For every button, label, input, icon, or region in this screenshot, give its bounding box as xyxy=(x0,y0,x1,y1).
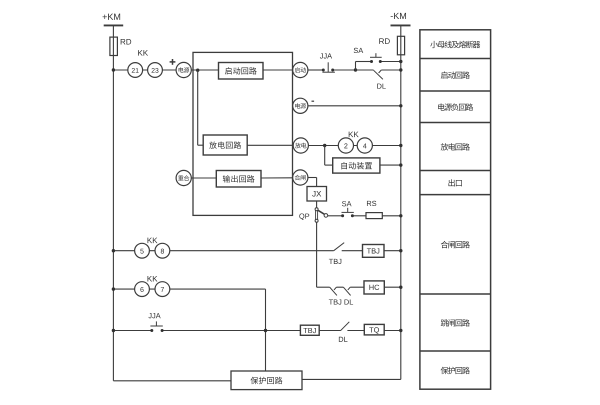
block 自动装置 xyxy=(333,158,380,173)
node left bus KK5 xyxy=(112,249,115,252)
block 输出回路 xyxy=(216,171,261,188)
contact DL top blade xyxy=(374,70,383,79)
wire TBJ2 to DL xyxy=(319,330,340,332)
label SA top xyxy=(354,48,364,53)
legend column frame xyxy=(420,30,491,389)
wire +bus to power terminal xyxy=(113,69,176,71)
wire left bus to 保护回路 xyxy=(113,380,231,382)
wire down to 自动装置 xyxy=(325,146,333,166)
label TBJ contact xyxy=(329,259,341,264)
label JJA top xyxy=(320,53,332,58)
switch KK label (6/7) xyxy=(148,276,158,282)
coil HC xyxy=(364,281,384,294)
device box (reclosing relay) xyxy=(193,52,293,215)
bus -KM label xyxy=(391,13,406,19)
legend row 合闸回路 xyxy=(420,195,491,249)
wire DL branch left xyxy=(356,69,374,71)
wire inner power down xyxy=(197,70,199,145)
legend row 放电回路 xyxy=(420,123,491,151)
wire split up xyxy=(355,62,357,71)
wire TBJ contact to coil xyxy=(342,250,363,252)
wire DL branch right xyxy=(381,69,401,71)
link QP body xyxy=(316,210,318,219)
label DL bottom xyxy=(339,337,348,342)
node 电源R bus xyxy=(399,104,402,107)
wire between contacts xyxy=(336,286,343,288)
switch KK contact 6 xyxy=(135,282,150,297)
contact SA bottom bridge xyxy=(342,208,354,213)
terminal 合闸 right xyxy=(293,170,308,185)
link QP open end xyxy=(324,214,328,218)
terminal 放电 right xyxy=(293,138,308,153)
wire DL to TQ xyxy=(347,330,364,332)
contact JJA (start) bridge xyxy=(322,62,335,72)
node inner power junction xyxy=(196,69,199,72)
legend row 启动回路 xyxy=(420,59,491,79)
polarity - label xyxy=(312,100,315,102)
node TBJ bus xyxy=(399,249,402,252)
contact JJA dots xyxy=(322,69,334,72)
terminal 电源 left xyxy=(176,62,191,77)
switch KK contact 4 xyxy=(357,138,372,153)
coil TBJ xyxy=(363,245,385,258)
link QP blade xyxy=(318,210,324,214)
switch KK contact 7 xyxy=(155,282,170,297)
terminal 电源 right xyxy=(293,98,308,113)
switch KK label (21/23) xyxy=(138,50,148,56)
wire QP corner to contacts xyxy=(317,286,330,288)
block JX xyxy=(307,187,327,202)
wire JX to QP xyxy=(316,201,318,208)
legend row 电源负回路 xyxy=(420,91,491,111)
node left bus KK6 xyxy=(112,287,115,290)
wire QP to SA xyxy=(328,215,343,217)
contact JJA2 dots xyxy=(150,329,163,332)
fuse RD2 xyxy=(379,36,404,55)
contact SA top bridge xyxy=(370,53,382,57)
node SA to bus xyxy=(399,60,402,63)
node 放电 junction xyxy=(323,144,326,147)
wire 电源L to 启动回路 xyxy=(191,69,218,71)
wire 放电 to KK2 xyxy=(309,145,401,147)
node SA/DL split xyxy=(354,68,357,71)
switch KK contact 2 xyxy=(338,138,353,153)
node 自动装置 bus xyxy=(399,163,402,166)
wire KK6/7 row xyxy=(113,288,265,290)
coil TBJ2 xyxy=(300,325,319,335)
wire KK7 down xyxy=(265,289,267,371)
label DL top xyxy=(377,84,386,89)
bus -KM bar xyxy=(391,24,411,26)
switch KK label (5/8) xyxy=(148,238,158,244)
contact DL2 blade xyxy=(343,287,350,295)
wire 启动 to JJA xyxy=(308,69,356,71)
wire KK5/8 row xyxy=(113,250,333,252)
wire JJA row xyxy=(113,330,300,332)
node JJA / KK7 junction xyxy=(264,329,267,332)
wire TBJ coil to bus xyxy=(384,250,401,252)
wire 启动回路 to 启动 terminal xyxy=(263,69,293,71)
label QP xyxy=(299,213,309,220)
node HC bus xyxy=(399,286,402,289)
bus +KM label xyxy=(103,14,121,20)
node left bus / KK21 xyxy=(112,68,115,71)
wire QP down xyxy=(316,222,318,287)
bus +KM bar xyxy=(104,24,124,26)
node RS bus xyxy=(399,214,402,217)
contact SA top dots xyxy=(370,60,382,63)
wire 合闸 to JX xyxy=(308,178,317,187)
label JJA bottom xyxy=(148,313,160,318)
label SA bottom xyxy=(342,201,352,206)
node left bus JJA xyxy=(112,329,115,332)
switch KK contact 8 xyxy=(155,243,170,258)
block 启动回路 xyxy=(219,63,264,80)
label TBJ DL xyxy=(329,299,353,304)
wire 放电回路 to 放电 terminal xyxy=(247,144,293,146)
wire to 放电回路 left xyxy=(198,144,204,146)
legend row 出口 xyxy=(420,171,491,187)
switch KK contact 5 xyxy=(135,243,150,258)
coil TQ xyxy=(364,324,384,335)
wire 自动装置 to bus xyxy=(380,164,401,166)
wire 重合 to 输出回路 xyxy=(191,177,216,179)
wire DL2 to HC xyxy=(350,286,364,288)
node TQ bus xyxy=(399,329,402,332)
wire SA branch xyxy=(356,61,401,63)
node KK4 bus xyxy=(399,144,402,147)
wire HC to bus xyxy=(384,286,401,288)
terminal 启动 right xyxy=(293,62,308,77)
node DL to bus xyxy=(399,68,402,71)
contact TBJ blade xyxy=(334,243,345,251)
switch KK contact 23 xyxy=(148,63,163,78)
wire right bus vertical xyxy=(400,25,402,379)
wire 输出回路 to 合闸 terminal xyxy=(261,177,293,179)
contact TBJ2 blade xyxy=(330,287,337,295)
legend row 跳闸回路 xyxy=(420,294,491,327)
legend row 小母线及熔断器 xyxy=(430,41,480,48)
polarity + label xyxy=(170,59,176,65)
resistor RS xyxy=(366,201,382,219)
link QP upper pivot xyxy=(315,208,318,211)
terminal 重合 left xyxy=(176,170,191,185)
wire 保护回路 to right bus xyxy=(302,378,401,380)
switch KK contact 21 xyxy=(128,63,143,78)
fuse RD1 xyxy=(110,37,131,55)
switch KK label (2/4) xyxy=(349,132,359,138)
block 放电回路 xyxy=(203,135,247,155)
wire RS to bus xyxy=(382,215,401,217)
wire 电源R to bus xyxy=(308,105,401,107)
wire SA to RS xyxy=(352,215,366,217)
contact DL bottom blade xyxy=(341,322,350,331)
link QP lower pivot xyxy=(315,219,318,222)
contact JJA2 bridge xyxy=(150,321,162,326)
legend row 保护回路 xyxy=(420,351,491,374)
wire left bus vertical xyxy=(112,25,114,380)
wire TQ to bus xyxy=(384,330,401,332)
block 保护回路 xyxy=(231,371,302,390)
contact SA bottom dots xyxy=(341,214,354,217)
